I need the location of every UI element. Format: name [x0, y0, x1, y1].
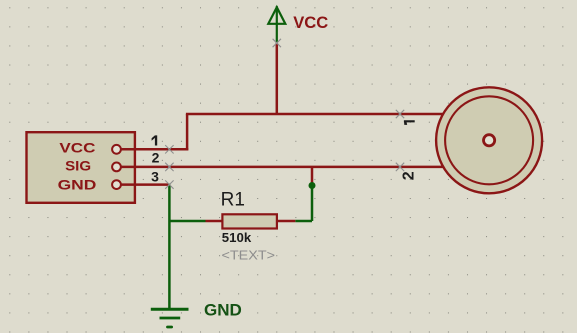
- pin number 1: [152, 135, 158, 145]
- svg-text:3: 3: [151, 169, 159, 185]
- svg-text:GND: GND: [58, 176, 97, 192]
- svg-text:2: 2: [401, 171, 418, 180]
- svg-text:VCC: VCC: [59, 140, 95, 156]
- svg-text:2: 2: [152, 150, 160, 166]
- ground symbol: [151, 309, 189, 327]
- wire GND pin stub: [121, 183, 170, 186]
- wire VCC vertical: [276, 43, 279, 115]
- svg-text:VCC: VCC: [293, 13, 328, 32]
- pin 3 circle: [112, 180, 121, 189]
- pin 1 circle: [112, 145, 121, 154]
- junction dot: [309, 182, 316, 189]
- wire red drop from SIG to junction: [311, 167, 314, 186]
- pin 2 circle: [112, 163, 121, 172]
- power symbol VCC: [268, 6, 285, 43]
- pin-end marker connector pin 2: [165, 163, 173, 171]
- wire top horizontal to sounder: [186, 113, 444, 116]
- pin-end marker connector pin 3: [165, 180, 173, 188]
- wire pin1 vertical riser: [186, 114, 189, 150]
- sounder outer circle: [436, 87, 542, 193]
- pin-end marker sounder pin 2: [396, 163, 404, 171]
- wire red resistor right stub: [278, 220, 295, 223]
- pin-end marker connector pin 1: [165, 145, 173, 153]
- svg-text:R1: R1: [221, 190, 245, 211]
- wire green horizontal left of resistor: [169, 220, 205, 222]
- svg-text:SIG: SIG: [65, 158, 91, 174]
- wire green junction down to resistor level: [311, 186, 314, 222]
- wire SIG horizontal: [121, 166, 445, 169]
- resistor R1 body: [222, 214, 277, 228]
- sounder inner circle: [445, 96, 533, 184]
- pin-end marker at VCC: [273, 39, 281, 47]
- svg-text:<TEXT>: <TEXT>: [222, 248, 276, 263]
- wire red resistor left stub: [206, 220, 224, 223]
- sounder pin number 1: [404, 120, 415, 125]
- svg-text:510k: 510k: [222, 231, 251, 245]
- connector body: [27, 132, 135, 203]
- wire pin1 horizontal from connector: [121, 148, 189, 151]
- svg-text:GND: GND: [204, 301, 242, 320]
- wire green vertical to ground: [168, 185, 171, 310]
- sounder center hole: [484, 135, 495, 146]
- pin-end marker sounder pin 1: [396, 110, 404, 118]
- wire green horizontal right of resistor: [295, 220, 312, 222]
